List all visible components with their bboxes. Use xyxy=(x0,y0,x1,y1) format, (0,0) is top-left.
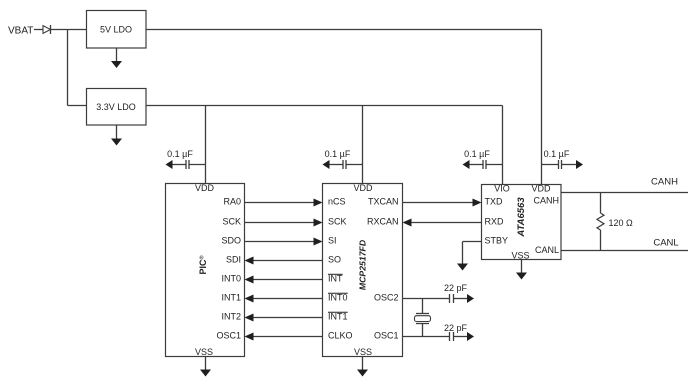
wire crystal branch from OSC2 xyxy=(422,299,424,314)
svg-text:0.1 µF: 0.1 µF xyxy=(464,149,490,159)
svg-text:CANH: CANH xyxy=(651,177,678,188)
wire CANH bus line xyxy=(561,192,688,194)
svg-text:CLKO: CLKO xyxy=(328,331,353,341)
capacitor C2 0.1 uF at MCP2517FD VDD xyxy=(323,160,363,169)
svg-text:SCK: SCK xyxy=(328,217,347,227)
pin SDI of PIC xyxy=(226,255,241,265)
svg-text:VBAT: VBAT xyxy=(8,25,33,36)
pin RXCAN of MCP2517FD xyxy=(367,217,399,227)
diode D1 xyxy=(43,25,51,34)
svg-text:SO: SO xyxy=(328,255,341,265)
pin RXD of ATA6563 xyxy=(485,217,505,227)
svg-text:OSC1: OSC1 xyxy=(216,331,241,341)
pin SCK of PIC xyxy=(222,217,241,227)
svg-text:OSC1: OSC1 xyxy=(374,331,399,341)
pin VIO of ATA6563 xyxy=(494,184,510,194)
svg-text:VDD: VDD xyxy=(195,183,215,193)
pin INT1 of PIC xyxy=(221,293,241,303)
svg-text:0.1 µF: 0.1 µF xyxy=(544,149,570,159)
pin SCK of MCP2517FD xyxy=(328,217,347,227)
pin VDD of ATA6563 xyxy=(531,184,551,194)
pin VSS of ATA6563 xyxy=(511,251,529,261)
pin VSS of MCP2517FD xyxy=(354,347,372,357)
ground at STBY xyxy=(457,264,468,271)
svg-text:22 pF: 22 pF xyxy=(444,323,468,333)
svg-text:STBY: STBY xyxy=(485,236,509,246)
svg-text:SDO: SDO xyxy=(221,236,241,246)
CAN transceiver U3 ATA6563 xyxy=(482,185,562,260)
label C6 22 pF xyxy=(444,323,468,333)
svg-text:TXD: TXD xyxy=(485,197,504,207)
svg-text:5V LDO: 5V LDO xyxy=(100,25,132,35)
svg-text:VSS: VSS xyxy=(511,251,529,261)
regulator 5V LDO xyxy=(87,11,147,49)
wire SDO to SI xyxy=(245,238,323,246)
svg-text:VIO: VIO xyxy=(494,184,510,194)
capacitor C5 22 pF at OSC2 xyxy=(450,294,475,303)
crystal Y1 xyxy=(415,314,431,324)
svg-text:CANH: CANH xyxy=(533,196,559,206)
svg-text:INT: INT xyxy=(328,274,343,284)
label U1 PIC xyxy=(198,255,208,274)
pin VDD of MCP2517FD xyxy=(353,183,373,193)
pin SO of MCP2517FD xyxy=(328,255,341,265)
wire junction down to 3.3V LDO input xyxy=(68,30,87,106)
pin OSC1 of MCP2517FD xyxy=(374,331,399,341)
regulator 3.3V LDO xyxy=(87,89,147,126)
pin RA0 of PIC xyxy=(223,197,241,207)
pin INT of MCP2517FD xyxy=(328,274,343,284)
svg-text:CANL: CANL xyxy=(535,245,559,255)
svg-text:VDD: VDD xyxy=(353,183,373,193)
wire INT0 to nINT xyxy=(245,276,323,284)
svg-text:SDI: SDI xyxy=(226,255,241,265)
pin nCS of MCP2517FD xyxy=(328,197,346,207)
svg-text:INT2: INT2 xyxy=(221,312,241,322)
wire 3.3V rail xyxy=(146,105,503,107)
pin CANH of ATA6563 xyxy=(533,196,559,206)
wire CANL bus line xyxy=(561,250,688,252)
capacitor C1 0.1 uF at PIC VDD xyxy=(166,160,206,169)
resistor R1 120 ohm termination xyxy=(597,193,604,251)
wire RXCAN to RXD xyxy=(403,219,482,227)
pin VSS of PIC xyxy=(195,347,213,357)
ground below 5V LDO xyxy=(111,48,122,68)
microcontroller U1 PIC xyxy=(166,184,245,357)
svg-text:VDD: VDD xyxy=(531,184,551,194)
wire INT2 to nINT1 xyxy=(245,314,323,322)
pin OSC2 of MCP2517FD xyxy=(374,293,399,303)
label U2 MCP2517FD xyxy=(358,239,368,290)
pin SDO of PIC xyxy=(221,236,241,246)
svg-text:3.3V LDO: 3.3V LDO xyxy=(96,102,136,112)
wire 3.3V rail drop to PIC VDD xyxy=(205,106,207,184)
wire OSC1 to CLKO xyxy=(245,333,323,341)
svg-text:RXD: RXD xyxy=(485,217,505,227)
svg-text:0.1 µF: 0.1 µF xyxy=(325,149,351,159)
ground below 3.3V LDO xyxy=(111,125,122,146)
svg-text:ATA6563: ATA6563 xyxy=(516,197,527,238)
wire 5V rail to ATA6563 VDD xyxy=(146,30,542,185)
capacitor C4 0.1 uF at ATA6563 VDD xyxy=(542,160,584,169)
label C3 0.1 uF xyxy=(464,149,490,159)
svg-text:CANL: CANL xyxy=(653,237,678,248)
label U3 ATA6563 xyxy=(516,197,527,238)
wire VBAT to diode D1 xyxy=(34,29,43,31)
wire RA0 to nCS xyxy=(245,199,323,207)
wire 3.3V rail drop to MCP2517FD VDD xyxy=(362,106,364,184)
ground below MCP2517FD VSS xyxy=(357,357,368,377)
ground below ATA6563 VSS xyxy=(516,260,527,280)
pin CLKO of MCP2517FD xyxy=(328,331,353,341)
capacitor C6 22 pF at OSC1 xyxy=(450,332,475,341)
node CANL xyxy=(653,237,678,248)
svg-text:22 pF: 22 pF xyxy=(444,283,468,293)
label C2 0.1 uF xyxy=(325,149,351,159)
capacitor C3 0.1 uF at ATA6563 VIO xyxy=(463,160,503,169)
wire crystal branch to OSC1 xyxy=(422,324,424,337)
wire OSC1 xyxy=(403,336,450,338)
pin CANL of ATA6563 xyxy=(535,245,559,255)
svg-text:VSS: VSS xyxy=(195,347,213,357)
svg-text:INT0: INT0 xyxy=(328,293,348,303)
svg-text:0.1 µF: 0.1 µF xyxy=(167,149,193,159)
svg-text:INT1: INT1 xyxy=(328,312,348,322)
pin VDD of PIC xyxy=(195,183,215,193)
pin SI of MCP2517FD xyxy=(328,236,337,246)
svg-text:INT1: INT1 xyxy=(221,293,241,303)
ground below PIC VSS xyxy=(200,357,211,377)
pin TXD of ATA6563 xyxy=(485,197,504,207)
pin STBY of ATA6563 xyxy=(485,236,509,246)
svg-text:OSC2: OSC2 xyxy=(374,293,399,303)
pin INT2 of PIC xyxy=(221,312,241,322)
label C4 0.1 uF xyxy=(544,149,570,159)
svg-text:TXCAN: TXCAN xyxy=(368,197,399,207)
CAN controller U2 MCP2517FD xyxy=(323,184,403,357)
wire 3.3V rail drop to ATA6563 VIO xyxy=(502,106,504,185)
pin INT0 of MCP2517FD xyxy=(328,293,348,303)
pin INT1 of MCP2517FD xyxy=(328,312,348,322)
wire SCK to SCK xyxy=(245,219,323,227)
wire SDI to SO xyxy=(245,257,323,265)
svg-text:MCP2517FD: MCP2517FD xyxy=(358,239,368,290)
svg-text:VSS: VSS xyxy=(354,347,372,357)
svg-text:nCS: nCS xyxy=(328,197,346,207)
label C5 22 pF xyxy=(444,283,468,293)
node CANH xyxy=(651,177,678,188)
svg-text:120 Ω: 120 Ω xyxy=(609,218,634,228)
wire INT1 to nINT0 xyxy=(245,295,323,303)
svg-text:SCK: SCK xyxy=(222,217,241,227)
svg-text:RXCAN: RXCAN xyxy=(367,217,399,227)
svg-text:SI: SI xyxy=(328,236,337,246)
node VBAT xyxy=(8,25,33,36)
label R1 120 ohm xyxy=(609,218,634,228)
wire STBY to ground xyxy=(463,242,482,265)
wire OSC2 xyxy=(403,298,450,300)
svg-text:INT0: INT0 xyxy=(221,274,241,284)
pin INT0 of PIC xyxy=(221,274,241,284)
wire TXCAN to TXD xyxy=(403,199,482,207)
wire diode to 5V LDO input xyxy=(51,29,87,31)
pin TXCAN of MCP2517FD xyxy=(368,197,399,207)
svg-text:RA0: RA0 xyxy=(223,197,241,207)
label C1 0.1 uF xyxy=(167,149,193,159)
pin OSC1 of PIC xyxy=(216,331,241,341)
